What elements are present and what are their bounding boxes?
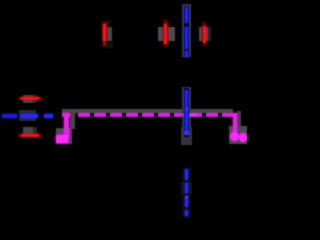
node right corner bbox=[229, 126, 247, 144]
wire main horizontal bbox=[62, 109, 233, 113]
junction node dots bbox=[181, 113, 184, 117]
voltage source V1 bbox=[182, 4, 191, 57]
resistor R2 bbox=[158, 27, 175, 41]
wire bottom blue dashes bbox=[182, 168, 191, 218]
resistor R1 bbox=[102, 21, 110, 24]
node left corner bbox=[70, 112, 75, 129]
resistor R5 (left block middle) bbox=[19, 110, 36, 121]
wire left blue bbox=[2, 114, 17, 118]
resistor R6 (left block bottom) bbox=[23, 127, 33, 134]
resistor R4 (left block top) bbox=[23, 95, 33, 103]
resistor R3 bbox=[199, 27, 208, 41]
ammeter (mid vertical) bbox=[182, 87, 191, 127]
